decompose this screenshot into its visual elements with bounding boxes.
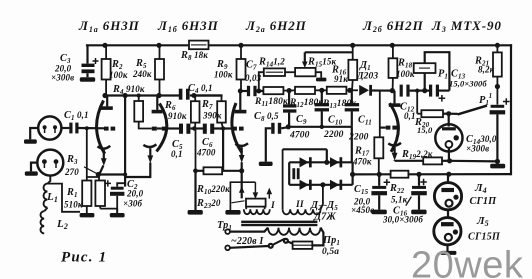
svg-text:II: II	[295, 200, 304, 210]
svg-text:Д203: Д203	[356, 72, 378, 82]
triode L1a cathode with arrow	[98, 146, 111, 175]
diode D5	[330, 180, 339, 190]
capacitor C3 electrolytic	[82, 45, 99, 77]
node A cathode junction	[85, 93, 162, 177]
inductor L2	[41, 208, 48, 234]
node grid bus junctions	[192, 126, 225, 130]
ground for R1	[80, 213, 95, 217]
ground for C8	[259, 162, 273, 166]
leader line R23	[232, 201, 245, 203]
capacitor C6	[205, 124, 212, 134]
svg-text:8,2к: 8,2к	[478, 65, 495, 75]
svg-text:270: 270	[64, 167, 79, 177]
capacitor C12	[401, 85, 429, 97]
node L2a plate / C7 junction	[238, 89, 243, 94]
triode L2b grid	[386, 126, 397, 130]
capacitor C16 electrolytic	[411, 174, 427, 209]
svg-text:2200: 2200	[348, 133, 369, 143]
resistor R16	[348, 45, 357, 90]
resistor R13	[315, 87, 358, 94]
svg-text:100к: 100к	[396, 69, 415, 79]
node C12 wire junctions	[390, 88, 428, 93]
svg-text:Рис. 1: Рис. 1	[61, 250, 107, 266]
triode L2a cathode with arrow	[235, 143, 248, 171]
terminal lower mains	[225, 246, 230, 251]
inductor L1	[44, 176, 81, 212]
svg-text:СГ1П: СГ1П	[470, 196, 498, 207]
resistor R8 in series with rail	[189, 41, 209, 50]
transformer primary winding	[230, 228, 323, 246]
wire C4 to R7 top	[194, 94, 222, 96]
triode L1a envelope	[97, 101, 105, 154]
triode L2b cathode with arrow	[388, 143, 401, 161]
svg-text:15,0×300б: 15,0×300б	[449, 79, 487, 89]
triode L1b plate	[152, 96, 163, 112]
svg-text:Л3 МТХ-90: Л3 МТХ-90	[431, 18, 502, 34]
triode L2a plate	[235, 91, 247, 112]
switch	[230, 239, 293, 248]
leader line R3	[84, 167, 97, 174]
transformer core	[241, 221, 317, 223]
svg-text:30,0×300б: 30,0×300б	[382, 215, 423, 225]
svg-text:0,1: 0,1	[171, 149, 183, 159]
thyratron L3 MTX-90	[435, 114, 462, 161]
svg-text:R13180к: R13180к	[322, 99, 357, 110]
terminal upper mains	[225, 229, 230, 234]
svg-text:×300в: ×300в	[466, 144, 489, 154]
svg-text:100к: 100к	[214, 70, 233, 80]
svg-text:R11180к: R11180к	[254, 97, 289, 108]
wire grid bus y=128.5	[157, 127, 233, 129]
wire R23 tap line	[222, 130, 224, 171]
triode L1b cathode with arrow	[125, 144, 156, 177]
triode L2b envelope	[390, 103, 399, 152]
capacitor C10	[315, 90, 329, 127]
wire cathode to hum pot	[241, 171, 243, 199]
ground for C2	[110, 213, 125, 217]
svg-text:СГ15П: СГ15П	[468, 232, 501, 243]
ground near transformer	[225, 210, 240, 215]
svg-text:910к: 910к	[168, 111, 187, 121]
potentiometer R15	[295, 52, 353, 77]
resistor R19	[395, 157, 450, 164]
leader line C16	[406, 197, 412, 206]
ground for connector X2	[25, 171, 38, 175]
node thyratron cathode junctions	[447, 158, 500, 164]
svg-text:Д2–Д5: Д2–Д5	[310, 200, 338, 212]
svg-text:15,0: 15,0	[417, 125, 433, 135]
svg-text:5,1к: 5,1к	[391, 195, 408, 205]
resistor R22 in series	[391, 171, 409, 178]
wire DC output rail	[353, 173, 511, 175]
svg-text:470к: 470к	[352, 157, 372, 167]
wire right edge vertical	[510, 45, 512, 174]
svg-text:4700: 4700	[289, 131, 310, 141]
svg-text:×30б: ×30б	[123, 199, 142, 209]
node R21 bottom junction	[495, 84, 500, 89]
svg-text:4700: 4700	[196, 148, 216, 158]
transformer winding II (HT)	[283, 149, 323, 214]
fuse Pr1	[293, 242, 313, 249]
triode L1b envelope	[157, 104, 167, 152]
resistor R2	[102, 45, 111, 95]
ground at C14 node	[496, 161, 498, 163]
resistor R7	[217, 96, 226, 129]
svg-text:Л2б 6Н2П: Л2б 6Н2П	[362, 18, 424, 34]
capacitor C13 electrolytic	[431, 85, 450, 102]
triode L2a envelope	[232, 103, 242, 153]
ground for connector X1	[24, 139, 37, 143]
capacitor C9	[283, 91, 296, 127]
svg-text:20,0: 20,0	[126, 189, 144, 199]
svg-text:0,03: 0,03	[245, 73, 262, 83]
node L3 anode junction	[446, 111, 451, 116]
bridge AC marker plates	[294, 168, 298, 179]
node DC rail junctions	[377, 172, 452, 177]
svg-text:91к: 91к	[334, 74, 348, 84]
diode D1	[359, 85, 392, 96]
resistor R3	[95, 181, 117, 214]
svg-text:×300в: ×300в	[51, 73, 74, 83]
node EQ resistor row junctions	[287, 88, 353, 93]
resistor R4	[134, 96, 152, 129]
capacitor C1	[61, 123, 104, 134]
triode L1a grid	[104, 127, 115, 131]
svg-text:100к: 100к	[109, 70, 128, 80]
ground for C3	[80, 77, 95, 82]
resistor R5	[155, 45, 164, 95]
ground for R10 line	[194, 171, 196, 210]
resistor R10	[196, 129, 242, 175]
triode L1a plate	[101, 96, 113, 109]
wire thyratron node to C14 node	[450, 160, 498, 163]
diode D2	[300, 157, 309, 167]
node dots top rail	[102, 43, 500, 48]
capacitor C7	[240, 86, 263, 96]
capacitor C5	[181, 124, 188, 134]
capacitor C15 electrolytic	[371, 174, 390, 209]
svg-text:2200: 2200	[323, 130, 344, 140]
resistor R11	[259, 87, 295, 94]
svg-text:0,1: 0,1	[404, 111, 416, 121]
transformer winding I (filament)	[244, 207, 270, 215]
svg-text:Л1а 6Н3П: Л1а 6Н3П	[78, 18, 140, 34]
capacitor C8	[266, 123, 289, 162]
node EQ bottom bus junctions	[286, 124, 324, 129]
svg-text:Д7Ж: Д7Ж	[313, 212, 336, 223]
resistor R20	[417, 91, 449, 118]
wire EQ bottom bus	[288, 127, 352, 163]
svg-text:~220в I: ~220в I	[231, 236, 264, 247]
capacitor C14 electrolytic	[490, 98, 510, 161]
svg-text:240к: 240к	[132, 69, 152, 79]
potentiometer R23 hum balance	[230, 182, 272, 210]
node R4 tap	[137, 94, 141, 98]
input connector socket X2	[31, 150, 63, 176]
resistor R18	[389, 45, 398, 90]
terminal bar below L5	[440, 251, 456, 255]
resistor R21	[493, 45, 502, 104]
resistor R9	[237, 45, 246, 91]
capacitor C2 electrolytic	[105, 180, 126, 213]
capacitor C4	[181, 89, 194, 100]
resistor R12	[295, 87, 315, 94]
svg-text:390к: 390к	[202, 111, 222, 121]
svg-text:Л2а 6Н2П: Л2а 6Н2П	[245, 18, 307, 34]
svg-text:510к: 510к	[64, 200, 83, 210]
tube heading labels	[78, 18, 502, 34]
wire top supply rail	[87, 44, 189, 46]
ground tap of R15	[316, 78, 326, 82]
rectifier bridge D2-D5 frame	[283, 149, 353, 185]
resistor R1	[82, 128, 99, 213]
resistor R14	[259, 68, 295, 91]
wire plate bus y=95.5	[105, 94, 179, 96]
triode L1b grid	[152, 127, 167, 131]
stabilizer tube L5 SG15P	[434, 218, 461, 251]
diode D3	[330, 157, 339, 167]
diode D4	[300, 180, 309, 190]
svg-text:×450в: ×450в	[351, 205, 374, 215]
resistor R17	[374, 91, 383, 175]
wire cathode node to C2	[98, 96, 125, 187]
svg-text:Л1б 6Н3П: Л1б 6Н3П	[157, 18, 219, 34]
node bridge junctions	[320, 160, 355, 188]
triode L2b plate	[389, 91, 401, 106]
capacitor C11	[345, 90, 359, 127]
svg-text:20wek: 20wek	[411, 245, 524, 279]
relay contact P1'	[449, 106, 487, 115]
resistor R6	[191, 96, 200, 129]
relay P1 coil	[414, 52, 450, 90]
stabilizer tube L4 SG1P	[434, 174, 461, 218]
svg-text:0,5а: 0,5а	[322, 247, 339, 257]
svg-text:I: I	[270, 201, 275, 211]
input connector socket X1	[30, 116, 61, 139]
triode L2a grid	[232, 127, 243, 131]
svg-text:R12180к: R12180к	[289, 98, 324, 109]
